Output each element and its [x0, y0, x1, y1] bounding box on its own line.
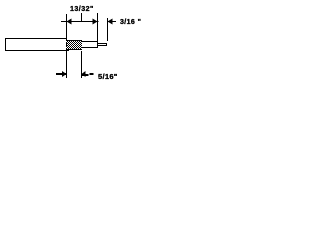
dielectric: [82, 42, 97, 47]
extension line braid end bottom: [81, 51, 83, 78]
dimension line 13/32: [61, 21, 99, 23]
arrowhead 13/32 right: [93, 19, 98, 25]
extension line jacket end: [66, 14, 68, 38]
arrowhead 5/16 right: [82, 71, 86, 77]
bottom dim tail right: [82, 74, 89, 76]
extension line dielectric end: [97, 13, 99, 41]
arrowhead 13/32 left: [67, 19, 72, 25]
braid (shield) block: [66, 41, 82, 49]
dimension tail 3/16: [108, 21, 117, 23]
svg-text:5/16": 5/16": [98, 72, 118, 81]
cable jacket: [5, 38, 66, 40]
bottom dim tail left: [56, 73, 67, 75]
extension tick braid end top: [81, 13, 83, 22]
arrowhead 5/16 left: [62, 71, 67, 77]
svg-text:13/32": 13/32": [70, 6, 94, 13]
svg-text:3/16 ": 3/16 ": [120, 19, 141, 26]
center conductor: [98, 44, 107, 46]
arrowhead 3/16: [108, 19, 113, 25]
extension line conductor tip: [107, 18, 109, 41]
